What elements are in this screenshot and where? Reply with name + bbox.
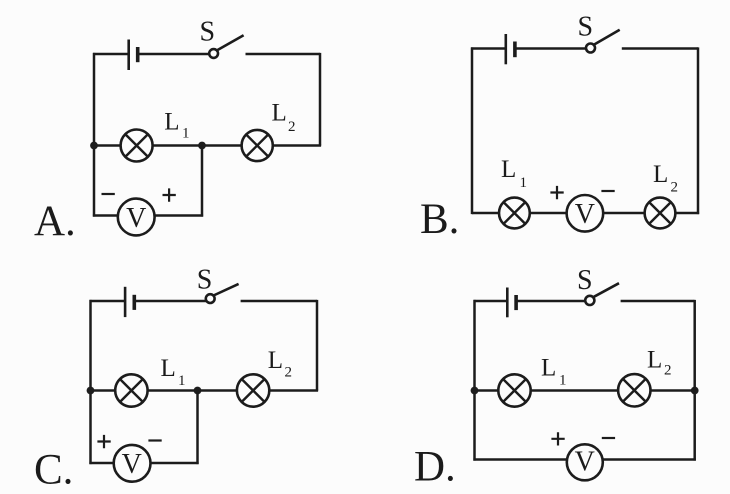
battery BT-D short plate — [514, 295, 518, 310]
node A left junction — [90, 142, 98, 150]
wire B voltmeter to L2 — [603, 212, 644, 215]
label S (B) — [578, 12, 594, 43]
svg-text:S: S — [197, 264, 213, 295]
wire B battery to switch — [515, 47, 586, 50]
svg-text:V: V — [575, 199, 595, 230]
wire A switch to top-right corner — [246, 53, 321, 56]
plus sign (D) — [551, 432, 564, 445]
wire A top-left horizontal — [93, 53, 128, 56]
option label A. — [34, 198, 76, 245]
minus sign (C) — [148, 439, 161, 441]
svg-text:L: L — [161, 355, 176, 382]
wire D switch to top-right corner — [621, 300, 695, 303]
voltmeter V (B) — [567, 195, 604, 232]
wire A right vertical — [319, 53, 322, 146]
lamp L1 (A) — [121, 130, 153, 162]
wire B top-left horizontal — [471, 47, 505, 50]
svg-text:S: S — [200, 17, 216, 48]
lamp L1 (D) — [498, 374, 530, 406]
plus sign (C) — [97, 435, 110, 448]
svg-text:L: L — [164, 109, 179, 136]
option label B. — [420, 196, 459, 243]
svg-text:2: 2 — [664, 363, 672, 379]
wire D between lamps — [531, 389, 618, 392]
label L2 (B) — [653, 161, 678, 196]
lamp L1 (C) — [115, 374, 147, 406]
wire D bottom row right — [603, 458, 696, 461]
label L1 (B) — [501, 156, 527, 191]
switch S (A) — [209, 35, 243, 58]
battery BT-C long plate — [124, 287, 127, 317]
switch S (B) — [586, 30, 620, 53]
wire B switch to top-right corner — [622, 47, 698, 50]
wire B right vertical — [697, 47, 700, 214]
wire C battery to switch — [134, 300, 206, 303]
battery BT-C short plate — [133, 295, 137, 310]
label S (D) — [577, 265, 593, 296]
option label D. — [414, 443, 456, 490]
svg-text:C.: C. — [34, 446, 73, 493]
label L2 (D) — [647, 347, 672, 379]
wire A lamp row left — [94, 144, 121, 147]
switch S (D) — [585, 283, 619, 305]
wire C voltmeter row right — [151, 462, 199, 465]
svg-text:D.: D. — [414, 443, 456, 490]
svg-text:1: 1 — [182, 126, 190, 142]
svg-text:S: S — [577, 265, 593, 296]
battery BT-A short plate — [136, 47, 140, 62]
wire C left vertical — [89, 300, 92, 464]
node A middle junction — [198, 142, 206, 150]
lamp L1 (B) — [499, 198, 530, 229]
label L1 (C) — [161, 355, 186, 389]
wire C middle vertical to voltmeter — [196, 391, 199, 465]
svg-text:L: L — [647, 347, 662, 374]
wire D left vertical — [473, 300, 476, 461]
wire B L1 to voltmeter — [530, 212, 567, 215]
wire A between lamps — [153, 144, 242, 147]
lamp L2 (B) — [645, 198, 676, 229]
svg-text:B.: B. — [420, 196, 459, 243]
svg-text:2: 2 — [285, 365, 293, 381]
wire D top-left horizontal — [474, 300, 507, 303]
wire A lamp row right — [273, 144, 321, 147]
svg-text:S: S — [578, 12, 594, 43]
wire A voltmeter row left — [93, 214, 119, 217]
svg-text:2: 2 — [288, 119, 296, 135]
label L2 (C) — [268, 347, 292, 381]
wire D bottom row left — [473, 458, 566, 461]
battery BT-D long plate — [506, 288, 509, 318]
voltmeter V (A) — [118, 199, 155, 236]
voltmeter V (D) — [567, 444, 603, 480]
wire D lamp row left — [475, 389, 499, 392]
wire C lamp row left — [91, 389, 116, 392]
lamp L2 (D) — [618, 374, 650, 406]
wire C lamp row right — [269, 389, 318, 392]
svg-text:1: 1 — [559, 373, 567, 389]
minus sign (B) — [601, 190, 614, 192]
svg-text:L: L — [272, 100, 287, 127]
wire D lamp row right — [651, 389, 696, 392]
svg-text:L: L — [268, 347, 283, 374]
node C left junction — [87, 387, 95, 395]
label L1 (A) — [164, 109, 189, 142]
battery BT-A long plate — [127, 40, 130, 71]
svg-text:L: L — [653, 161, 668, 188]
label S (A) — [200, 17, 216, 48]
wire D right vertical — [693, 300, 696, 461]
node D right junction — [691, 387, 699, 395]
svg-text:1: 1 — [178, 373, 186, 389]
wire B bottom row left — [472, 212, 499, 215]
node C middle junction — [194, 387, 202, 395]
wire A voltmeter row right — [154, 214, 203, 217]
wire A battery to switch — [138, 53, 210, 56]
battery BT-B short plate — [513, 42, 517, 58]
label L1 (D) — [541, 355, 567, 389]
svg-text:V: V — [575, 446, 595, 477]
wire D battery to switch — [516, 300, 585, 303]
lamp L2 (C) — [237, 374, 269, 406]
battery BT-B long plate — [504, 34, 507, 64]
svg-text:1: 1 — [520, 175, 528, 191]
lamp L2 (A) — [242, 130, 273, 161]
wire C top-left horizontal — [90, 300, 125, 303]
svg-text:2: 2 — [671, 180, 679, 196]
wire B bottom row right — [675, 212, 699, 215]
svg-text:V: V — [122, 449, 142, 480]
option label C. — [34, 446, 73, 493]
wire C between lamps — [148, 389, 237, 392]
minus sign (D) — [602, 437, 615, 439]
node D left junction — [471, 387, 479, 395]
svg-text:L: L — [541, 355, 556, 382]
wire B left vertical — [471, 47, 474, 214]
minus sign (A) — [102, 193, 115, 195]
wire A left vertical — [93, 53, 96, 217]
wire C voltmeter row left — [89, 462, 113, 465]
svg-text:V: V — [126, 203, 146, 234]
label S (C) — [197, 264, 213, 295]
plus sign (A) — [163, 188, 176, 201]
plus sign (B) — [550, 186, 563, 199]
switch S (C) — [206, 284, 239, 303]
voltmeter V (C) — [114, 445, 151, 482]
wire C switch to top-right corner — [241, 300, 317, 303]
wire A middle vertical to voltmeter — [201, 146, 204, 217]
svg-text:L: L — [501, 156, 516, 183]
svg-text:A.: A. — [34, 198, 76, 245]
label L2 (A) — [272, 100, 296, 136]
wire C right vertical — [316, 300, 319, 391]
